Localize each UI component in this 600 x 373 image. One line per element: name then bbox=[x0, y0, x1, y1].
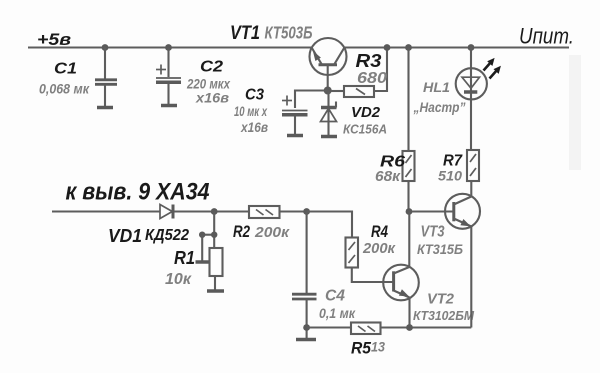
svg-text:200к: 200к bbox=[362, 240, 396, 257]
node: HL1 rail junction bbox=[468, 44, 475, 51]
transistor VT3 KT315B bbox=[417, 181, 480, 257]
ground: C3 bbox=[287, 134, 303, 138]
wire: side link to ground branch bbox=[202, 234, 214, 236]
wire: +5V output rail left segment bbox=[28, 46, 312, 48]
svg-text:С2: С2 bbox=[200, 59, 223, 76]
resistor R1 10k bbox=[165, 248, 223, 290]
node: VT1 base junction bbox=[324, 87, 332, 95]
capacitor C3 (electrolytic) bbox=[234, 87, 328, 136]
svg-text:КТ3102БМ: КТ3102БМ bbox=[413, 308, 475, 323]
svg-text:68к: 68к bbox=[375, 168, 401, 185]
svg-text:КД522: КД522 bbox=[145, 227, 189, 244]
node: C1 rail junction bbox=[102, 44, 109, 51]
svg-text:HL1: HL1 bbox=[423, 79, 450, 95]
svg-text:VT1: VT1 bbox=[230, 23, 260, 44]
transistor VT1 KT503B bbox=[230, 23, 347, 76]
node: VD1 cathode junction bbox=[211, 208, 218, 215]
svg-text:R5: R5 bbox=[351, 340, 372, 358]
LED HL1 "Nastr" bbox=[413, 48, 501, 151]
svg-text:0,1 мк: 0,1 мк bbox=[319, 305, 356, 321]
zener diode VD2 KS156A bbox=[321, 91, 388, 137]
node: C2 rail junction bbox=[165, 44, 172, 51]
svg-text:VD2: VD2 bbox=[351, 104, 381, 121]
wire: input from pin 9 of XA34 bbox=[52, 210, 160, 212]
svg-text:13: 13 bbox=[371, 339, 385, 355]
node: R6 rail junction bbox=[405, 44, 412, 51]
resistor R6 68k bbox=[375, 48, 415, 212]
svg-text:R4: R4 bbox=[371, 223, 388, 241]
diode VD1 KD522 bbox=[108, 205, 249, 247]
svg-text:10 мк х: 10 мк х bbox=[234, 103, 268, 119]
svg-text:R3: R3 bbox=[356, 51, 382, 71]
ground: C1 bbox=[97, 106, 113, 110]
svg-text:+5в: +5в bbox=[37, 30, 71, 49]
resistor R7 510 bbox=[438, 150, 479, 184]
svg-text:С3: С3 bbox=[245, 87, 264, 104]
svg-text:к выв. 9 ХА34: к выв. 9 ХА34 bbox=[66, 179, 210, 206]
svg-text:КТ503Б: КТ503Б bbox=[265, 23, 313, 43]
ground: VD2 bbox=[321, 135, 337, 139]
svg-text:680: 680 bbox=[357, 70, 387, 87]
wire: VT3 base to node bbox=[409, 210, 454, 212]
capacitor C2 (electrolytic) bbox=[156, 48, 231, 106]
wire: node down to R1 bbox=[213, 212, 215, 249]
wire: VT1 base lead bbox=[327, 65, 329, 91]
svg-text:VT3: VT3 bbox=[421, 224, 445, 241]
ground: R1 bbox=[207, 289, 224, 293]
svg-text:510: 510 bbox=[438, 169, 463, 184]
wire: R5 to emitters bbox=[381, 326, 472, 328]
svg-text:С4: С4 bbox=[325, 288, 345, 305]
svg-text:КТ315Б: КТ315Б bbox=[417, 242, 463, 257]
svg-text:х16в: х16в bbox=[240, 119, 268, 135]
ground: C4 bbox=[296, 338, 316, 342]
wire: side branch down bbox=[201, 235, 203, 261]
svg-text:КС156А: КС156А bbox=[343, 122, 387, 137]
node: C4 bottom junction bbox=[303, 324, 310, 331]
capacitor C4 bbox=[292, 212, 356, 339]
svg-text:R1: R1 bbox=[174, 248, 195, 268]
resistor R4 200k bbox=[346, 223, 397, 268]
wire: VT2 collector to VT3 base node bbox=[408, 212, 410, 268]
resistor R2 200k bbox=[233, 206, 290, 241]
svg-text:200к: 200к bbox=[254, 224, 290, 241]
node: side link left bbox=[199, 232, 205, 238]
resistor R5 13 bbox=[351, 323, 385, 358]
svg-text:Uпит.: Uпит. bbox=[519, 24, 574, 49]
svg-text:10к: 10к bbox=[165, 271, 192, 288]
svg-text:х16в: х16в bbox=[195, 90, 230, 106]
svg-text:R7: R7 bbox=[443, 153, 463, 170]
svg-text:С1: С1 bbox=[54, 61, 77, 78]
wire: R2 to junction bbox=[280, 210, 307, 212]
node: R3 rail junction bbox=[384, 44, 391, 51]
ground: side branch bbox=[196, 260, 209, 264]
wire: bottom wire C4 to R5 bbox=[307, 326, 351, 328]
node: R2/C4/R4 junction bbox=[303, 208, 310, 215]
svg-text:R2: R2 bbox=[233, 222, 250, 241]
svg-text:VT2: VT2 bbox=[427, 291, 455, 308]
wire: VT3 emitter down bbox=[470, 227, 472, 328]
ground: C2 bbox=[161, 104, 177, 108]
wire: supply rail right segment bbox=[344, 46, 569, 48]
transistor VT2 KT3102BM bbox=[383, 265, 475, 328]
node: VT2 emitter junction bbox=[406, 324, 413, 331]
resistor R3 680 bbox=[331, 48, 387, 98]
svg-text:„Настр”: „Настр” bbox=[413, 99, 466, 115]
svg-text:0,068 мк: 0,068 мк bbox=[39, 81, 90, 97]
svg-text:VD1: VD1 bbox=[108, 226, 142, 246]
node: VT3 base junction bbox=[406, 208, 413, 215]
capacitor C1 bbox=[39, 48, 117, 107]
node: side link right bbox=[211, 232, 217, 238]
wire: junction to R4 bbox=[307, 212, 352, 238]
wire: R4 to VT2 base bbox=[352, 268, 394, 283]
